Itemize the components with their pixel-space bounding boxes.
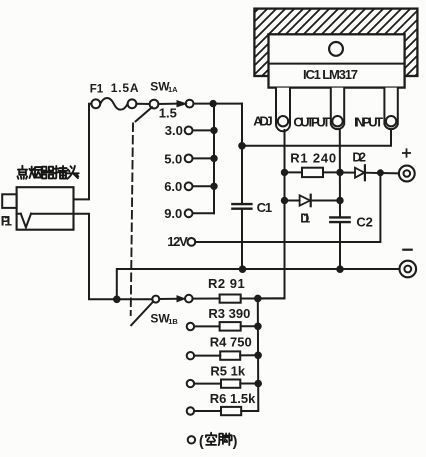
svg-text:1B: 1B	[168, 317, 178, 326]
svg-text:6.0: 6.0	[164, 179, 182, 194]
svg-text:R3 390: R3 390	[208, 306, 250, 321]
svg-text:R4 750: R4 750	[210, 335, 252, 350]
svg-text:): )	[233, 434, 238, 450]
svg-text:OUTPUT: OUTPUT	[293, 114, 330, 129]
svg-text:12V: 12V	[167, 234, 188, 249]
svg-text:1.5A: 1.5A	[111, 81, 140, 95]
svg-text:R2 91: R2 91	[208, 276, 245, 291]
svg-text:INPUT: INPUT	[354, 114, 383, 129]
svg-text:C2: C2	[356, 215, 373, 230]
svg-text:D1: D1	[300, 212, 310, 226]
svg-text:D2: D2	[352, 150, 366, 164]
svg-text:1A: 1A	[168, 85, 178, 94]
svg-text:F1: F1	[90, 83, 104, 95]
svg-text:ADJ: ADJ	[253, 113, 273, 128]
svg-text:C1: C1	[257, 200, 273, 215]
svg-text:5.0: 5.0	[164, 151, 182, 166]
svg-text:P1: P1	[1, 212, 13, 228]
svg-text:1.5: 1.5	[159, 105, 177, 120]
svg-text:9.0: 9.0	[164, 206, 182, 221]
svg-text:IC1 LM317: IC1 LM317	[303, 67, 358, 82]
svg-text:R5 1k: R5 1k	[210, 364, 245, 379]
svg-text:3.0: 3.0	[165, 123, 183, 138]
svg-text:R1 240: R1 240	[290, 151, 337, 166]
svg-text:(: (	[199, 434, 204, 450]
svg-text:R6 1.5k: R6 1.5k	[210, 391, 256, 406]
